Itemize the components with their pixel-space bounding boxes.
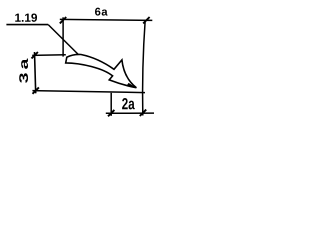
label underline — [6, 24, 48, 26]
tick 3a bottom — [33, 87, 39, 93]
extension line right — [143, 20, 146, 116]
tick 6a right — [143, 17, 149, 23]
dimension line 3a — [35, 52, 36, 93]
dimension 2a label — [122, 98, 135, 109]
extension line left (x=63) — [62, 17, 64, 56]
dimension 3a label (rotated) — [19, 59, 28, 83]
figure label 1.19 — [15, 13, 37, 21]
tick 2a right — [140, 110, 146, 116]
tick 6a left — [60, 17, 66, 23]
extension line 3a top (y=55) — [32, 54, 66, 57]
tick 3a top — [32, 52, 38, 58]
leader line to arrow — [48, 25, 79, 56]
extension line 2a left (x=111) — [110, 93, 112, 116]
curved arrow outline — [66, 54, 137, 87]
tip ink wedge — [127, 83, 137, 88]
extension line bottom (y=91) — [32, 91, 145, 93]
dimension 6a label — [95, 8, 108, 16]
tick 2a left — [108, 110, 114, 116]
dimension line 6a — [60, 19, 153, 20]
dimension line 2a — [106, 112, 154, 114]
